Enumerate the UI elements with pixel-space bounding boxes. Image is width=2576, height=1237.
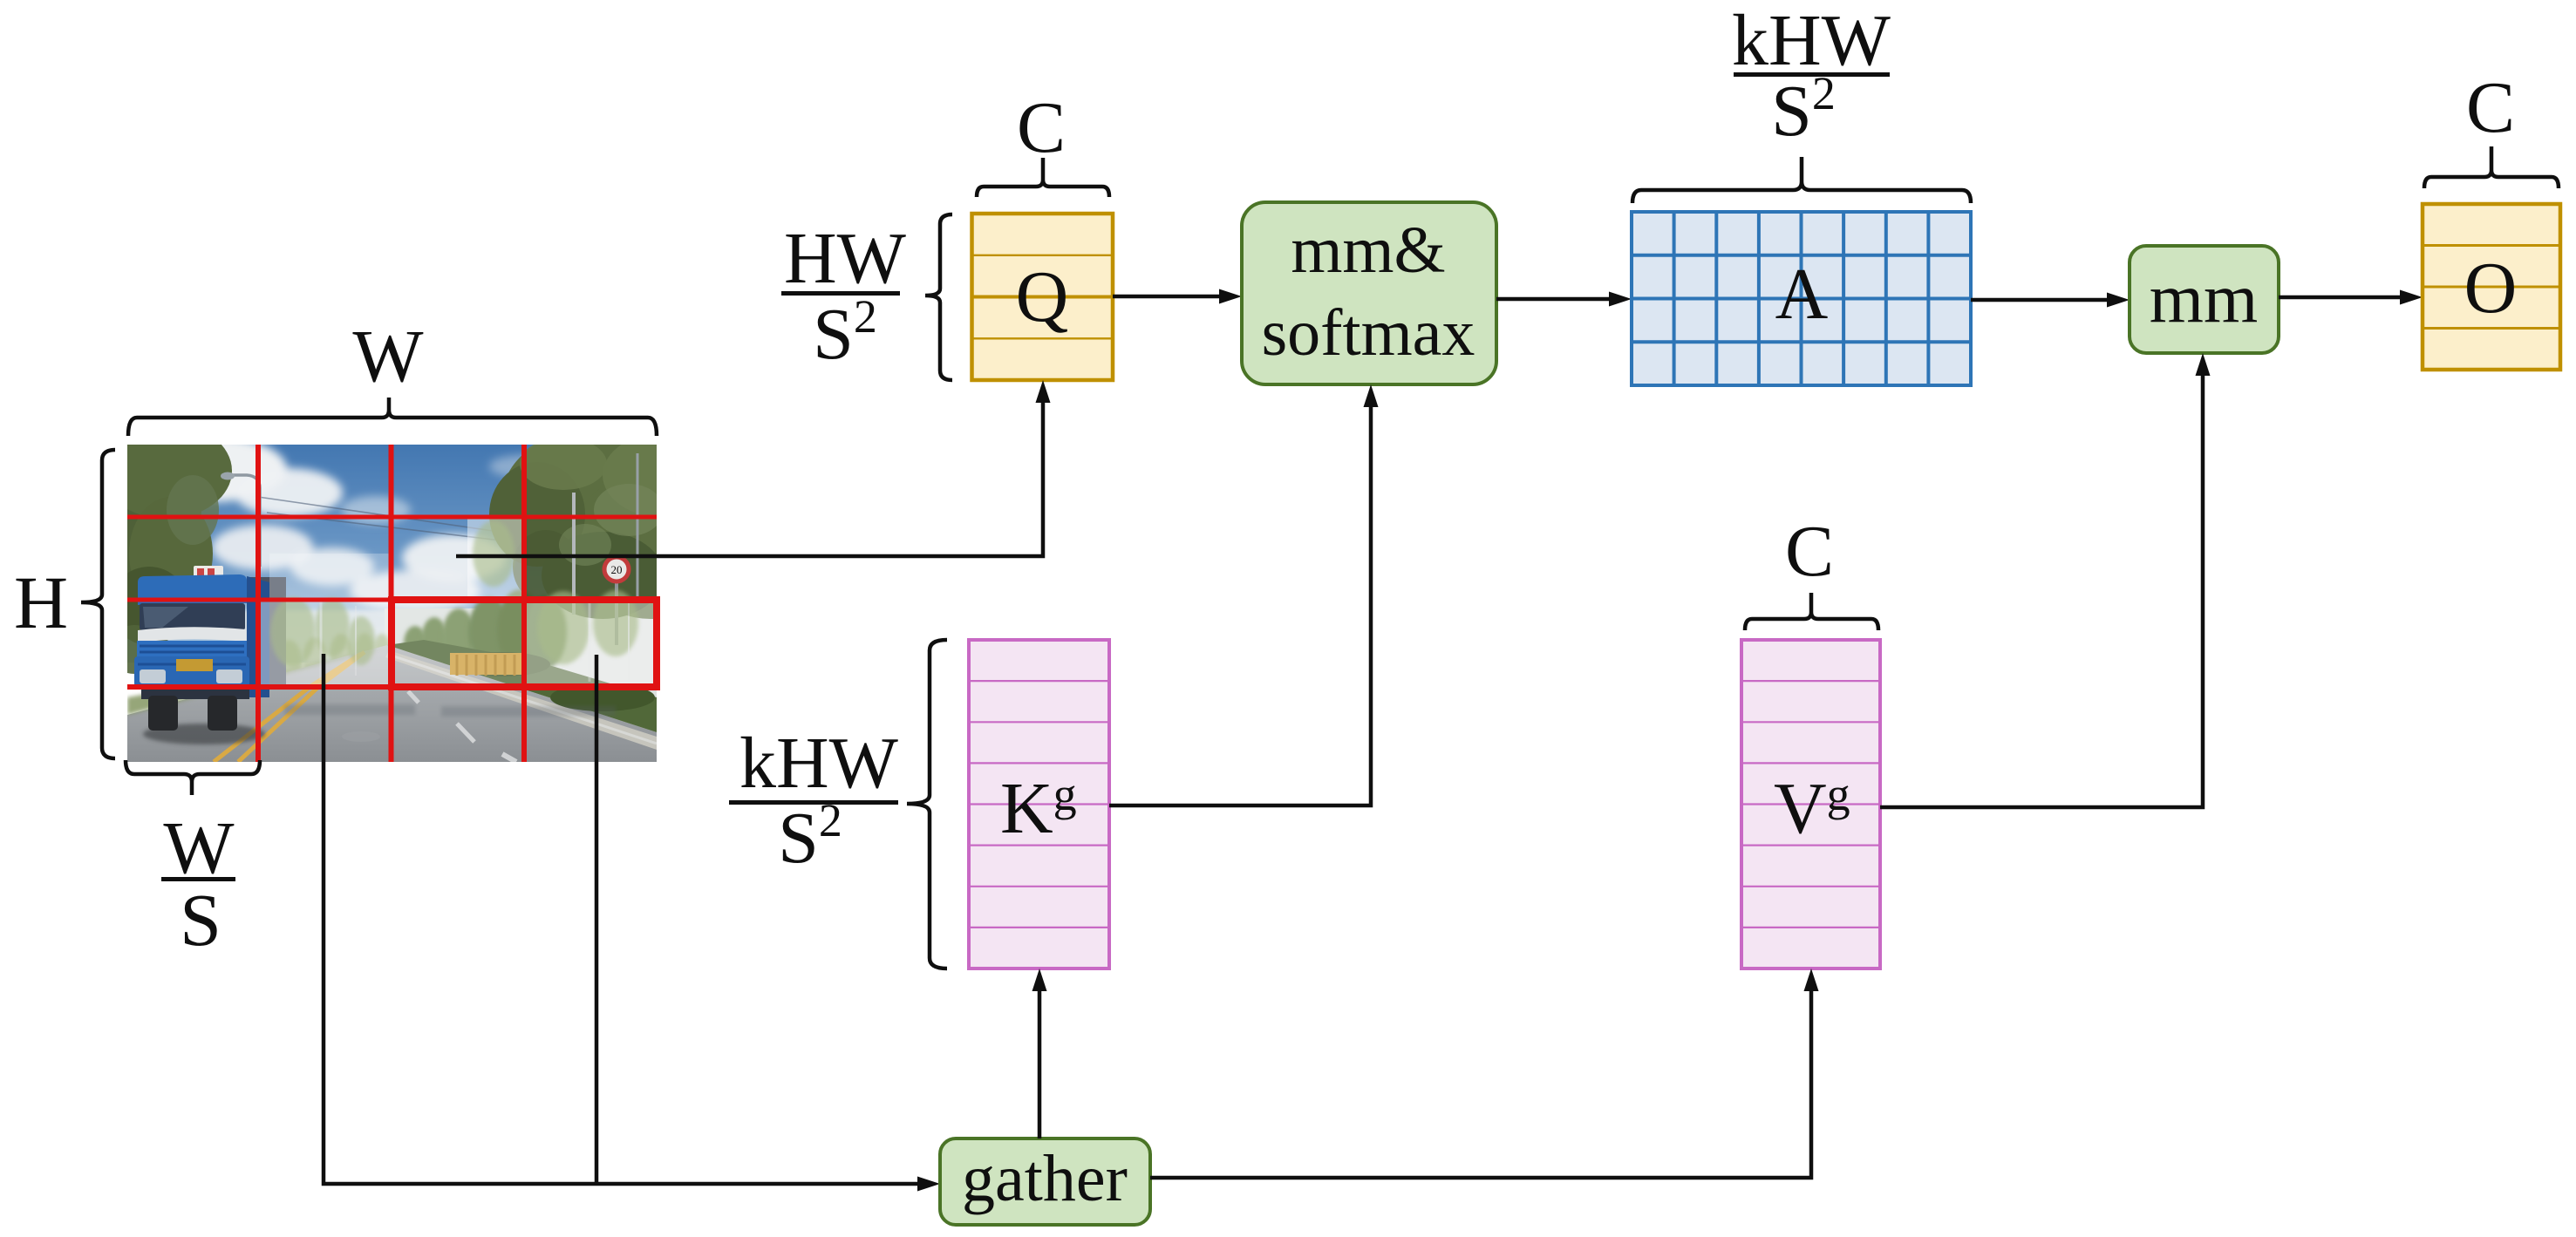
svg-text:A: A: [1775, 254, 1829, 335]
roof sign: [194, 566, 223, 579]
svg-text:S2: S2: [813, 290, 877, 375]
yellow center lines: [238, 652, 365, 762]
svg-text:HW: HW: [784, 218, 907, 299]
elbow Kg to mm&softmax: [1109, 384, 1379, 805]
svg-text:softmax: softmax: [1262, 296, 1475, 370]
left tree: [71, 414, 232, 674]
bumper: [134, 656, 249, 687]
matrix A: [1632, 212, 1971, 385]
svg-text:S2: S2: [778, 794, 842, 879]
box mm: [2130, 246, 2279, 353]
distant horizon haze: [241, 610, 546, 658]
H brace: [81, 450, 115, 758]
right tree: [489, 427, 733, 619]
dark under body & wheels: [141, 687, 249, 699]
arrow Q to mm&softmax: [1113, 289, 1242, 304]
power wires: [258, 497, 515, 542]
cab right side: [247, 576, 269, 697]
svg-text:mm: mm: [2150, 261, 2258, 337]
road smudge watermarks: [284, 704, 616, 717]
sky: [127, 445, 657, 663]
svg-text:S: S: [180, 878, 221, 962]
right sidewalk curb: [385, 650, 657, 750]
arrow A to mm: [1971, 293, 2130, 308]
line photo cell to gather (line1): [324, 654, 940, 1192]
svg-text:C: C: [1785, 511, 1834, 592]
white band: [138, 627, 246, 642]
Q left bracket: [925, 214, 952, 380]
svg-text:C: C: [1017, 87, 1066, 168]
white road markings: [408, 691, 516, 762]
red grid on photo: [127, 445, 657, 762]
box O: [2423, 204, 2560, 370]
arrow mm to O: [2279, 290, 2423, 305]
clouds: [133, 436, 559, 612]
overbrace above A: [1632, 157, 1971, 203]
distant right tree row: [404, 589, 567, 669]
cab roof: [138, 574, 247, 605]
grille: [137, 641, 247, 657]
right ground base: [385, 608, 657, 762]
distant left tree row: [275, 633, 390, 689]
left road shoulder green: [127, 647, 387, 715]
svg-text:20: 20: [611, 563, 623, 576]
svg-text:H: H: [14, 561, 68, 644]
Kg left bracket: [907, 640, 947, 969]
haze ghost overlays: [258, 519, 657, 687]
W overbrace: [128, 398, 657, 436]
svg-text:Q: Q: [1016, 256, 1069, 337]
yellow barrier: [450, 653, 525, 676]
road: [127, 645, 657, 762]
svg-text:O: O: [2464, 248, 2518, 329]
arrow gather to Kg: [1032, 969, 1047, 1138]
svg-text:gather: gather: [962, 1142, 1128, 1215]
thick red highlight rect: [392, 600, 657, 687]
cargo behind cab: [247, 577, 286, 689]
svg-text:S2: S2: [1771, 67, 1836, 152]
elbow Vg to mm: [1880, 353, 2211, 807]
speed sign: [615, 580, 618, 645]
W/S underbrace: [126, 760, 260, 795]
box gather: [940, 1138, 1150, 1225]
box Vg: [1741, 640, 1880, 969]
svg-text:kHW: kHW: [739, 723, 899, 804]
C overbrace above Q: [977, 158, 1109, 197]
svg-text:C: C: [2466, 67, 2515, 148]
box mm&softmax: [1242, 202, 1496, 384]
windshield: [140, 603, 245, 630]
line photo cell2 down (line2): [595, 655, 599, 1184]
C overbrace above O: [2424, 146, 2559, 188]
svg-text:W: W: [352, 314, 423, 398]
box Kg: [969, 640, 1109, 969]
box Q: [972, 214, 1114, 380]
svg-text:mm&: mm&: [1291, 214, 1445, 287]
right poles: [572, 493, 576, 615]
photo of road scene: [71, 414, 733, 762]
svg-text:W: W: [163, 805, 234, 889]
elbow gather to Vg: [1150, 969, 1819, 1178]
right bushes: [387, 640, 657, 732]
truck: [134, 566, 286, 744]
arrow mm&softmax to A: [1496, 292, 1632, 307]
C overbrace above Vg: [1745, 593, 1878, 630]
left lamp pole: [230, 475, 260, 567]
arrow into Q bottom from photo: [456, 380, 1051, 556]
